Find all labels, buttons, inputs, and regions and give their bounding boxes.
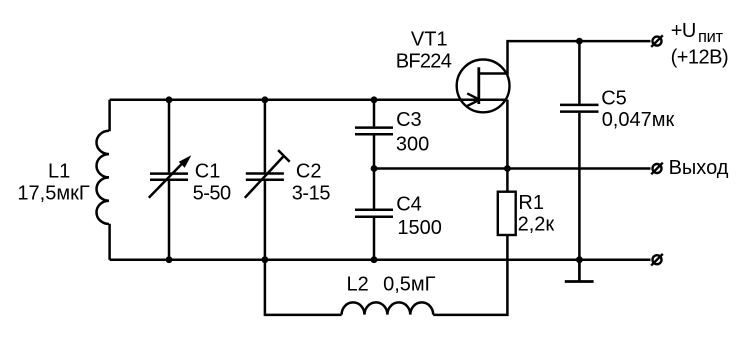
terminal output — [653, 164, 662, 173]
wire bottom rail — [110, 258, 651, 261]
transistor VT1 base bar — [477, 67, 480, 104]
capacitor C1 arrowhead — [179, 155, 192, 167]
inductor L1 — [97, 131, 109, 224]
resistor R1 body — [498, 192, 516, 235]
ground symbol — [565, 260, 594, 282]
node top rail / C3 — [371, 96, 378, 103]
capacitor C3 plates — [355, 128, 393, 135]
svg-text:L1: L1 — [48, 160, 70, 182]
svg-text:3-15: 3-15 — [292, 183, 331, 205]
svg-text:+U: +U — [671, 20, 697, 42]
svg-text:17,5мкГ: 17,5мкГ — [17, 183, 89, 205]
capacitor C1 arrow shaft — [149, 162, 184, 198]
node bottom rail / C4 — [371, 256, 378, 263]
svg-text:0,047мк: 0,047мк — [602, 109, 675, 131]
svg-text:Выход: Выход — [669, 157, 729, 179]
transistor VT1 circle — [457, 60, 510, 113]
wire output line — [374, 167, 651, 170]
node +U rail / C5 — [576, 38, 583, 45]
capacitor C4 plates — [355, 210, 393, 217]
wire C1 branch — [168, 100, 171, 260]
svg-text:BF224: BF224 — [396, 50, 452, 72]
capacitor C2 trimmer stem and T-bar — [245, 150, 290, 198]
node top rail / C2 — [262, 96, 269, 103]
node bottom rail / C1 — [166, 256, 173, 263]
wire C4 branch — [373, 169, 376, 260]
svg-text:0,5мГ: 0,5мГ — [383, 274, 436, 296]
svg-text:2,2к: 2,2к — [518, 214, 555, 236]
node C3-C4 / output junction — [371, 165, 378, 172]
svg-text:VT1: VT1 — [411, 28, 448, 50]
wire top rail (tank circuit to transistor) — [110, 99, 508, 102]
svg-text:C1: C1 — [195, 161, 221, 183]
svg-text:R1: R1 — [518, 192, 544, 214]
capacitor C1 plates — [150, 174, 188, 180]
wire L2 left end to bottom rail — [265, 260, 342, 315]
terminal common — [653, 255, 662, 264]
svg-text:C2: C2 — [296, 161, 322, 183]
wire R1 bottom to L2 right end — [433, 235, 507, 315]
wire L1 branch leads — [108, 100, 111, 260]
svg-text:C5: C5 — [601, 88, 627, 110]
capacitor C2 plates — [246, 174, 284, 180]
svg-text:C4: C4 — [396, 193, 422, 215]
wire C5 branch — [578, 41, 581, 260]
node bottom rail / C5 and ground — [576, 256, 583, 263]
node top rail / C1 — [166, 96, 173, 103]
svg-text:300: 300 — [396, 133, 429, 155]
svg-text:1500: 1500 — [397, 217, 442, 239]
node bottom rail / C2 and L2 — [262, 256, 269, 263]
svg-text:L2: L2 — [347, 274, 369, 296]
transistor VT1 emitter arrow — [467, 93, 480, 106]
wire collector stub to +U rail — [480, 41, 651, 73]
inductor L2 — [342, 302, 434, 314]
svg-text:5-50: 5-50 — [193, 183, 231, 205]
wire emitter vertical down to R1 — [506, 100, 509, 192]
node emitter / output junction — [504, 165, 511, 172]
svg-text:C3: C3 — [396, 109, 422, 131]
wire C3 branch — [373, 100, 376, 169]
capacitor C5 plates — [560, 105, 599, 112]
terminal +U supply — [653, 37, 662, 46]
wire C2 branch — [264, 100, 267, 260]
svg-text:пит: пит — [698, 28, 724, 46]
svg-text:(+12В): (+12В) — [671, 47, 729, 69]
